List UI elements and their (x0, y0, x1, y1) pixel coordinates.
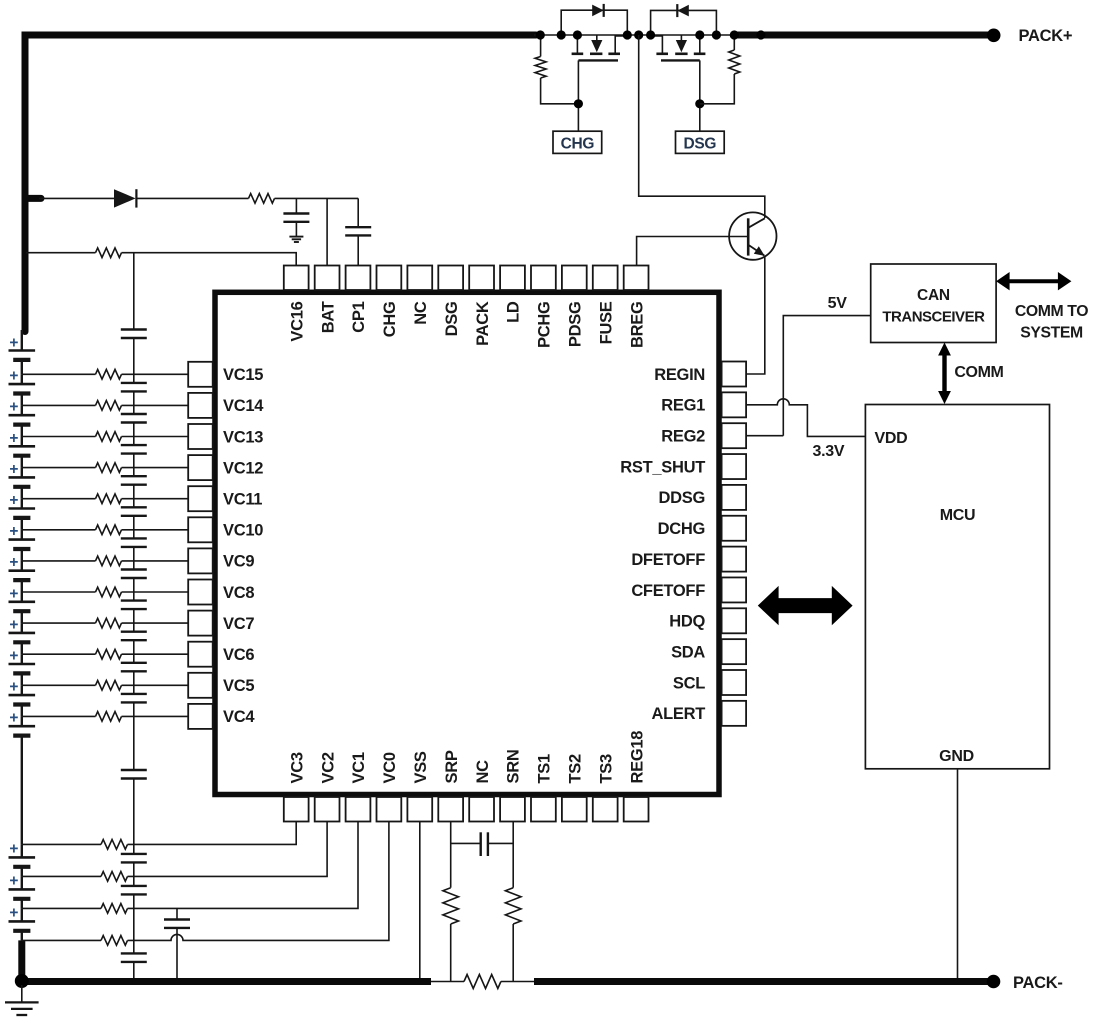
wire resistor to pin VC5 (122, 684, 189, 686)
svg-text:VC5: VC5 (223, 677, 254, 695)
wire SRP pin down (450, 822, 452, 888)
resistor R-VC6 (96, 649, 122, 659)
pin PDSG (top) (562, 266, 587, 348)
svg-text:BREG: BREG (628, 302, 646, 348)
wire cell tap to resistor VC5 (22, 684, 96, 686)
pin VC9 (left) (188, 548, 254, 573)
wire cell tap to resistor VC0 (22, 939, 101, 941)
pin CHG (top) (377, 266, 402, 338)
svg-text:MCU: MCU (940, 507, 976, 524)
transistor Q-DSG drain terminal (699, 35, 701, 53)
battery cell B11 (9, 654, 36, 685)
wire VC16 from rail (26, 252, 96, 254)
pin VC6 (left) (188, 642, 254, 667)
battery cell B12 (9, 685, 36, 716)
wire SRP resistor to rail (450, 924, 452, 982)
label CHG (561, 135, 595, 152)
arrow COMM bidirectional vertical (938, 343, 951, 405)
battery cell B5 (9, 468, 36, 499)
pin REG2 (right) (661, 423, 746, 448)
pin VC7 (left) (188, 611, 254, 636)
svg-text:+: + (9, 554, 18, 571)
resistor R-VC12 (96, 463, 122, 473)
transistor Q-CHG body arrow (591, 35, 602, 52)
pin DDSG (right) (659, 485, 747, 510)
svg-text:VC14: VC14 (223, 397, 264, 415)
wire cell tap to resistor VC8 (22, 591, 96, 593)
svg-text:VSS: VSS (412, 751, 430, 783)
plus mark cell B8 (9, 554, 18, 571)
svg-text:DSG: DSG (443, 302, 461, 337)
block CAN transceiver (871, 264, 996, 343)
wire resistor to pin VC11 (122, 498, 189, 500)
resistor R-VC7 (96, 618, 122, 628)
svg-text:PACK-: PACK- (1013, 974, 1063, 992)
node rail junction x=577.4 (573, 30, 582, 39)
wire stub to diode anode (39, 197, 114, 199)
node battery negative junction (15, 974, 29, 988)
node rail junction x=734.3 (730, 30, 739, 39)
wire resistor to pin VC7 (122, 622, 189, 624)
pin REG1 (right) (661, 392, 746, 417)
battery cell B14 (9, 844, 36, 876)
resistor R-VC9 (96, 556, 122, 566)
svg-text:SYSTEM: SYSTEM (1020, 325, 1083, 342)
svg-text:+: + (9, 335, 18, 352)
svg-text:+: + (9, 648, 18, 665)
node rail junction x=650.6 (646, 30, 655, 39)
svg-text:NC: NC (412, 301, 430, 325)
wire DSG gate lead (699, 60, 701, 131)
svg-text:VC10: VC10 (223, 522, 263, 540)
wire resistor to BAT/CP1 nodes (275, 197, 359, 199)
svg-text:REG18: REG18 (628, 731, 646, 784)
svg-text:DSG: DSG (683, 135, 716, 152)
wire PACK- thick rail right (534, 978, 994, 985)
svg-text:REG2: REG2 (661, 428, 705, 446)
battery cell B9 (9, 592, 36, 623)
pin DCHG (right) (658, 516, 746, 541)
wire resistor to pin VC14 (122, 404, 189, 406)
wire thick lead VC0 to PACK- node (18, 940, 25, 981)
wire MCU GND to PACK- rail (957, 769, 959, 982)
pin VC13 (left) (188, 424, 263, 449)
pin VC3 (bottom) (284, 752, 309, 821)
svg-text:CFETOFF: CFETOFF (631, 582, 705, 600)
pin VC11 (left) (188, 486, 262, 511)
transistor Q-CHG channel segments (572, 52, 620, 55)
svg-text:VC9: VC9 (223, 553, 254, 571)
pin TS1 (bottom) (531, 754, 556, 821)
pin CFETOFF (right) (631, 577, 746, 602)
svg-text:HDQ: HDQ (669, 613, 705, 631)
wire PACK+ thick rail right segment (734, 32, 994, 39)
wire cell tap to resistor VC10 (22, 529, 96, 531)
wire BAT pin drop (326, 198, 328, 266)
node rail junction x=561.2 (557, 30, 566, 39)
node PACK- terminal (987, 975, 1001, 989)
resistor DSG gate-source (RGS) (729, 50, 740, 74)
pin NC (top) (407, 266, 432, 325)
plus mark cell B13 (9, 710, 18, 727)
node CHG gate junction (574, 99, 583, 108)
wire cell tap to resistor VC6 (22, 653, 96, 655)
node DSG gate junction (695, 99, 704, 108)
wire VSS pin to rail (419, 822, 421, 982)
svg-text:VC6: VC6 (223, 646, 254, 664)
diode D-DSG symbol (677, 4, 689, 17)
resistor CHG gate-source (RGS) (535, 57, 546, 79)
wire PACK+ thick rail top-left (battery positive) (25, 35, 536, 332)
plus mark cell B5 (9, 461, 18, 478)
wire thin rail segment between FETs (534, 34, 736, 36)
transistor Q-DSG channel segments (656, 52, 705, 55)
wire cell tap to resistor VC4 (22, 715, 96, 717)
pin VC5 (left) (188, 673, 254, 698)
svg-text:SRP: SRP (443, 750, 461, 783)
pin VC10 (left) (188, 517, 263, 542)
battery cell B15 (9, 876, 36, 908)
plus mark cell B15 (9, 873, 18, 890)
node junction rail-to-collector (634, 30, 643, 39)
label VDD (875, 430, 908, 447)
wire resistor to pin VC10 (122, 529, 189, 531)
ground symbol main (5, 985, 39, 1015)
svg-text:NC: NC (474, 760, 492, 784)
pin label box DSG (676, 131, 725, 153)
svg-text:CAN: CAN (917, 287, 950, 304)
svg-text:+: + (9, 679, 18, 696)
svg-text:+: + (9, 492, 18, 509)
svg-text:TRANSCEIVER: TRANSCEIVER (882, 309, 985, 326)
transistor Q-DSG source terminal (651, 36, 663, 53)
wire cell tap to resistor VC3 (22, 843, 101, 845)
battery cell B7 (9, 530, 36, 561)
svg-text:+: + (9, 430, 18, 447)
pin VC16 (top) (284, 266, 309, 342)
svg-text:VC0: VC0 (381, 752, 399, 783)
plus mark cell B1 (9, 335, 18, 352)
pin VC15 (left) (188, 362, 263, 387)
svg-text:LD: LD (505, 301, 523, 323)
resistor R-VC1 (101, 904, 127, 914)
resistor R-VC0 (101, 936, 127, 946)
label CAN TRANSCEIVER (882, 287, 985, 326)
pin BAT (top) (315, 266, 340, 334)
svg-text:CHG: CHG (561, 135, 595, 152)
battery cell B4 (9, 437, 36, 468)
resistor R-VC11 (96, 494, 122, 504)
pin HDQ (right) (669, 608, 746, 633)
wire REG1 to MCU VDD 3.3V (hop over 5V line) (747, 399, 866, 437)
wire cell tap to resistor VC11 (22, 498, 96, 500)
svg-text:VC15: VC15 (223, 366, 263, 384)
svg-text:5V: 5V (828, 295, 848, 312)
battery cell B1 (top cell) (9, 330, 36, 374)
wire CHG FET resistor bottom lead (541, 78, 579, 104)
wire cell tap to resistor VC9 (22, 560, 96, 562)
net label PACK+ (1019, 27, 1073, 45)
wire resistor to pin VC8 (122, 591, 189, 593)
resistor R-VC14 (96, 401, 122, 411)
pin BREG (top) (624, 266, 649, 348)
node rail junction x=699.8 (695, 30, 704, 39)
svg-text:VC11: VC11 (223, 491, 262, 509)
svg-text:+: + (9, 616, 18, 633)
transistor Q-CHG MOSFET drain terminal (576, 35, 578, 53)
battery cell B8 (9, 561, 36, 592)
wire resistor to pin VC9 (122, 560, 189, 562)
svg-text:ALERT: ALERT (652, 705, 706, 723)
plus mark cell B14 (9, 841, 18, 858)
resistor R-SRN (505, 888, 521, 924)
node rail junction x=627.3 (623, 30, 632, 39)
svg-text:+: + (9, 368, 18, 385)
pin SDA (right) (671, 639, 746, 664)
svg-text:+: + (9, 523, 18, 540)
block MCU (865, 405, 1049, 769)
pin NC (bottom) (469, 760, 494, 822)
pin VSS (bottom) (407, 751, 432, 821)
wire DSG FET gate resistor top lead (733, 35, 735, 50)
pin PCHG (top) (531, 266, 556, 348)
svg-text:+: + (9, 841, 18, 858)
resistor R-VC4 (96, 712, 122, 722)
svg-text:DCHG: DCHG (658, 520, 705, 538)
wire SRN pin down (512, 822, 514, 888)
node rail junction x=716.4 (712, 30, 721, 39)
pin DFETOFF (right) (631, 547, 746, 572)
svg-text:+: + (9, 585, 18, 602)
svg-text:VC8: VC8 (223, 584, 254, 602)
wire CHG FET gate resistor top lead (540, 35, 542, 57)
net label 3.3V (813, 443, 845, 460)
wire cell tap to resistor VC12 (22, 467, 96, 469)
svg-text:PACK: PACK (474, 301, 492, 346)
battery cell B3 (9, 405, 36, 436)
wire long cell lead VC4 to VC3 section (9, 716, 36, 844)
net label 5V (828, 295, 848, 312)
resistor R-VC16 (96, 248, 122, 258)
node PACK+ terminal (987, 29, 1001, 43)
wire BREG pin to base (637, 237, 749, 266)
resistor R-VC15 (96, 370, 122, 380)
ground symbol near C-BAT (289, 237, 303, 242)
svg-text:COMM TO: COMM TO (1015, 303, 1088, 320)
pin SCL (right) (673, 670, 746, 695)
svg-text:GND: GND (939, 748, 974, 765)
wire resistor to pin VC3 (128, 822, 297, 845)
wire PACK- thick rail left (22, 978, 431, 985)
plus mark cell B2 (9, 368, 18, 385)
svg-text:TS2: TS2 (567, 754, 585, 783)
wire resistor to pin VC0 (with hop over cap lead) (128, 822, 389, 941)
pin REGIN (right) (654, 362, 746, 387)
svg-text:DFETOFF: DFETOFF (631, 551, 705, 569)
pin SRP (bottom) (438, 750, 463, 821)
resistor R-SRP (443, 888, 459, 924)
node rail junction x=760.9 (756, 30, 765, 39)
svg-text:+: + (9, 905, 18, 922)
wire cell tap to resistor VC15 (22, 373, 96, 375)
plus mark cell B16 (9, 905, 18, 922)
svg-text:SCL: SCL (673, 674, 705, 692)
wire thick stub from left rail (25, 195, 41, 202)
wire CHG gate lead (577, 60, 579, 131)
svg-text:BAT: BAT (319, 301, 337, 333)
capacitor C-CP1 series (345, 198, 371, 266)
pin RST_SHUT (right) (620, 454, 746, 479)
wire cell tap to resistor VC2 (22, 875, 101, 877)
wire VC16 to pin (122, 253, 297, 266)
svg-text:FUSE: FUSE (597, 301, 615, 344)
wire resistor to pin VC13 (122, 436, 189, 438)
label DSG (683, 135, 716, 152)
svg-text:+: + (9, 399, 18, 416)
battery cell B10 (9, 623, 36, 654)
pin PACK (top) (469, 266, 494, 346)
pin DSG (top) (438, 266, 463, 337)
plus mark cell B9 (9, 585, 18, 602)
label COMM TO SYSTEM (1015, 303, 1088, 342)
wire resistor to pin VC2 (128, 822, 328, 877)
svg-text:PACK+: PACK+ (1019, 27, 1073, 45)
wire cell tap to resistor VC7 (22, 622, 96, 624)
svg-text:VDD: VDD (875, 430, 908, 447)
wire diode to resistor (136, 197, 248, 199)
resistor R-VC3 (101, 840, 127, 850)
pin FUSE (top) (593, 266, 618, 345)
wire resistor to pin VC12 (122, 467, 189, 469)
arrow COMM TO SYSTEM bidirectional (996, 272, 1071, 290)
svg-text:CHG: CHG (381, 302, 399, 338)
diode CHG FET body diode loop wire (561, 10, 627, 35)
pin VC1 (bottom) (346, 752, 371, 821)
resistor R-VC2 (101, 872, 127, 882)
diode DSG FET body diode loop wire (651, 10, 717, 35)
wire cell tap to resistor VC13 (22, 436, 96, 438)
op-amp U1 BQ76952 monitor IC body (215, 292, 719, 794)
pin VC2 (bottom) (315, 752, 340, 821)
pin TS2 (bottom) (562, 754, 587, 821)
resistor R-sense (shunt) (429, 975, 536, 989)
plus mark cell B4 (9, 430, 18, 447)
svg-text:CP1: CP1 (350, 301, 368, 332)
svg-text:SDA: SDA (671, 643, 705, 661)
wire cell tap to resistor VC1 (22, 907, 101, 909)
wire rail to transistor collector (639, 35, 765, 218)
wire 5V vertical and to CAN transceiver (783, 316, 870, 436)
wire SRN resistor to rail (512, 924, 514, 982)
wire DSG resistor bottom lead (700, 74, 735, 104)
wire resistor to pin VC1 (128, 822, 359, 909)
capacitor chain cell-input filter caps (121, 330, 147, 962)
svg-text:VC12: VC12 (223, 459, 263, 477)
svg-text:TS3: TS3 (597, 754, 615, 783)
svg-text:3.3V: 3.3V (813, 443, 845, 460)
svg-text:REG1: REG1 (661, 397, 705, 415)
wire resistor to pin VC4 (122, 715, 189, 717)
wire cell tap to resistor VC14 (22, 404, 96, 406)
capacitor C-sense filter (451, 832, 514, 856)
pin TS3 (bottom) (593, 754, 618, 821)
resistor R-VC5 (96, 681, 122, 691)
svg-text:+: + (9, 710, 18, 727)
node rail junction x=540.3 (536, 30, 545, 39)
net label PACK- (1013, 974, 1063, 992)
transistor Q-CHG source terminal (615, 36, 627, 53)
transistor Q-DSG gate bar (661, 59, 700, 61)
wire REG2 to 5V line (747, 435, 784, 437)
svg-text:COMM: COMM (954, 364, 1003, 381)
plus mark cell B3 (9, 399, 18, 416)
arrow digital interface IC-to-MCU (758, 586, 853, 625)
svg-text:VC1: VC1 (350, 752, 368, 783)
pin REG18 (bottom) (624, 731, 649, 822)
svg-text:VC4: VC4 (223, 708, 255, 726)
pin LD (top) (500, 266, 525, 323)
resistor R-VC13 (96, 432, 122, 442)
svg-text:TS1: TS1 (536, 754, 554, 783)
svg-text:RST_SHUT: RST_SHUT (620, 458, 705, 476)
label COMM (954, 364, 1003, 381)
svg-text:+: + (9, 873, 18, 890)
plus mark cell B11 (9, 648, 18, 665)
pin VC0 (bottom) (377, 752, 402, 821)
pin VC12 (left) (188, 455, 263, 480)
resistor R-VC10 (96, 525, 122, 535)
battery cell B2 (9, 374, 36, 405)
wire resistor to pin VC15 (122, 373, 189, 375)
pin VC8 (left) (188, 580, 254, 605)
capacitor C-VC1-GND with lead to ground rail (164, 908, 190, 981)
svg-text:REGIN: REGIN (654, 366, 705, 384)
pin label box CHG (553, 131, 602, 153)
svg-text:VC16: VC16 (288, 301, 306, 341)
transistor Q-DSG body arrow (676, 35, 687, 52)
diode D-CHG symbol (592, 4, 604, 17)
capacitor C-BAT to ground (283, 198, 309, 236)
transistor Q1 NPN (729, 212, 776, 259)
plus mark cell B7 (9, 523, 18, 540)
svg-text:VC7: VC7 (223, 615, 254, 633)
pin SRN (bottom) (500, 750, 525, 822)
transistor Q-CHG gate bar (578, 59, 618, 61)
label GND (939, 748, 974, 765)
svg-text:VC3: VC3 (288, 752, 306, 783)
label MCU (940, 507, 976, 524)
svg-text:+: + (9, 461, 18, 478)
plus mark cell B10 (9, 616, 18, 633)
pin ALERT (right) (652, 701, 747, 726)
svg-text:VC2: VC2 (319, 752, 337, 783)
diode D1 series diode (114, 189, 136, 207)
battery cell B6 (9, 499, 36, 530)
svg-text:DDSG: DDSG (659, 489, 705, 507)
pin CP1 (top) (346, 266, 371, 333)
wire differential filter cap chain (133, 253, 135, 982)
resistor R-VC8 (96, 587, 122, 597)
wire resistor to pin VC6 (122, 653, 189, 655)
plus mark cell B6 (9, 492, 18, 509)
svg-text:SRN: SRN (505, 750, 523, 784)
svg-text:PDSG: PDSG (567, 302, 585, 348)
plus mark cell B12 (9, 679, 18, 696)
resistor R-BAT (249, 194, 275, 204)
battery cell B16 (9, 908, 36, 940)
pin VC4 (left) (188, 704, 255, 729)
svg-text:PCHG: PCHG (536, 302, 554, 348)
